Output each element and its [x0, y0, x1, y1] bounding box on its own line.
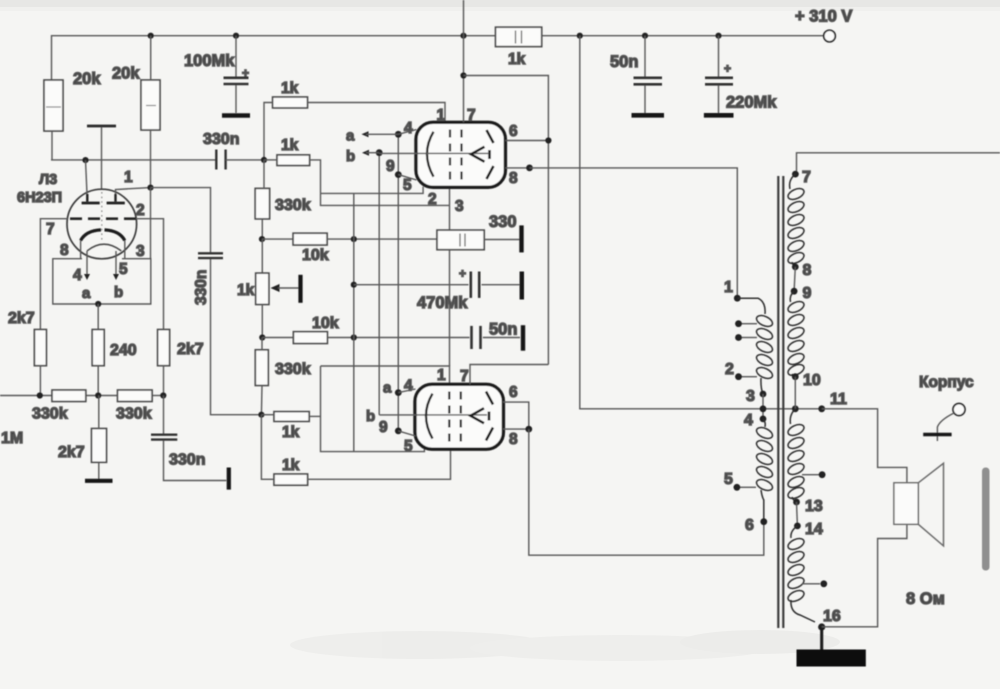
- center line pin9: [379, 152, 488, 154]
- svg-text:13: 13: [805, 498, 823, 515]
- wire bottom bias row y395: [0, 395, 52, 397]
- node bus-pin7: [460, 33, 466, 39]
- capacitor 50n feedback: [472, 321, 524, 351]
- tap 5: [724, 471, 756, 491]
- cathode arc A: [81, 230, 101, 241]
- resistor 330k bias right: [116, 390, 152, 423]
- pin6 stub: [503, 402, 529, 429]
- svg-text:330n: 330n: [169, 452, 205, 469]
- wire 20k right bottom: [150, 36, 152, 80]
- svg-text:a: a: [346, 128, 355, 145]
- anode B bar: [107, 188, 151, 203]
- tap stub a: [735, 320, 757, 327]
- wire tap7 feedback line: [797, 153, 1000, 171]
- capacitor 330n phase-b (vertical line x210): [151, 188, 262, 415]
- node pin7-b+: [460, 72, 466, 78]
- tap 6: [760, 518, 767, 525]
- svg-text:10k: 10k: [302, 247, 329, 264]
- node 1k chain: [261, 157, 267, 163]
- wiper arrow: [271, 284, 280, 292]
- tap 11: [818, 405, 825, 412]
- capacitor 100Mk: [184, 36, 250, 116]
- winding right section A: [786, 174, 805, 267]
- beam plates: [471, 147, 485, 162]
- svg-text:1: 1: [437, 367, 446, 384]
- capacitor 330n coupling top: [203, 131, 264, 170]
- svg-text:2: 2: [428, 191, 437, 208]
- svg-text:20k: 20k: [73, 70, 101, 88]
- anode dashes: [486, 392, 493, 441]
- ground slab: [797, 650, 866, 667]
- node 395-2k7c: [160, 392, 166, 398]
- wire grid right pin2: [136, 219, 164, 330]
- tap 8: [792, 264, 799, 271]
- node right on output line: [792, 405, 799, 412]
- wire return: [822, 524, 907, 627]
- resistor 2k7 grid right: [158, 330, 204, 396]
- svg-text:a: a: [383, 380, 392, 397]
- svg-text:Л3: Л3: [39, 172, 57, 188]
- svg-text:3: 3: [455, 198, 464, 215]
- resistor 330k divider bottom: [255, 338, 310, 415]
- wire tube2 grid feed x320: [321, 366, 425, 452]
- svg-text:1: 1: [437, 107, 446, 124]
- wire cathode A lead: [80, 241, 82, 259]
- resistor 20k right: [112, 36, 160, 188]
- wire pin8 to tap6: [529, 429, 764, 555]
- wire tube1 pin3 step: [321, 193, 450, 205]
- svg-text:7: 7: [460, 368, 469, 385]
- wire feed from tap11: [822, 409, 907, 483]
- svg-text:4: 4: [744, 412, 753, 429]
- winding right section B: [786, 291, 805, 377]
- svg-text:100Mk: 100Mk: [184, 52, 235, 70]
- wire to tube2a pin1: [308, 103, 446, 123]
- wire to step: [310, 160, 321, 194]
- label a tube1 + arrow: [346, 120, 417, 145]
- pin8 stub: [505, 167, 529, 169]
- tap 4: [762, 394, 764, 419]
- ground bar vertical: [227, 468, 231, 490]
- ground bar vertical: [521, 325, 525, 351]
- wire pin6 b+: [464, 76, 549, 365]
- wire cathode bus x354: [353, 193, 355, 451]
- node phase-b junction: [258, 412, 264, 418]
- svg-text:2k7: 2k7: [58, 444, 85, 461]
- svg-text:7: 7: [802, 169, 811, 186]
- resistor 20k left: [44, 70, 101, 160]
- transformer T1: [724, 153, 1000, 667]
- tube V1 output (upper): [379, 0, 551, 365]
- heater pin 4 arrow: [73, 251, 91, 302]
- potentiometer 1k: [237, 239, 301, 337]
- winding right section C: [786, 409, 805, 501]
- tap 2: [725, 361, 757, 380]
- svg-text:3: 3: [136, 243, 145, 260]
- ground bar vertical: [298, 275, 302, 303]
- pin box below tube: [53, 188, 151, 330]
- svg-text:330k: 330k: [275, 361, 311, 378]
- svg-text:2k7: 2k7: [8, 310, 35, 327]
- node cathode junction: [95, 301, 101, 307]
- node 160-anode: [82, 157, 88, 163]
- wire b-line: [376, 149, 383, 415]
- capacitor 330n lower: [151, 396, 229, 490]
- svg-text:470Mk: 470Mk: [417, 294, 468, 312]
- grid dashes 1: [449, 130, 451, 180]
- wire grid left pin7: [40, 219, 67, 330]
- svg-text:4: 4: [73, 267, 82, 284]
- svg-text:1k: 1k: [282, 457, 300, 474]
- wire tube1 pin2 step: [321, 187, 424, 194]
- wire top supply bus: [52, 36, 824, 80]
- svg-text:1: 1: [124, 169, 133, 186]
- grid dashes 2: [460, 130, 462, 180]
- svg-text:8: 8: [509, 431, 518, 448]
- svg-text:7: 7: [46, 221, 55, 238]
- wire cap to node: [226, 159, 264, 161]
- wire B+ to output line: [580, 36, 822, 409]
- wire cathode B lead: [124, 241, 126, 259]
- svg-text:5: 5: [724, 471, 733, 488]
- svg-text:+ 310 V: + 310 V: [795, 8, 852, 26]
- svg-text:14: 14: [805, 521, 823, 538]
- svg-text:1k: 1k: [508, 51, 526, 68]
- svg-text:1: 1: [724, 279, 733, 296]
- node cathode-470: [351, 282, 357, 288]
- wire driver plate row y160: [51, 159, 216, 161]
- ground bar vertical: [519, 225, 523, 252]
- svg-text:330k: 330k: [275, 197, 311, 214]
- svg-text:1M: 1M: [1, 430, 23, 447]
- heater arc: [87, 244, 121, 251]
- svg-text:5: 5: [119, 261, 128, 278]
- capacitor 50n supply: [610, 36, 664, 116]
- svg-text:8: 8: [509, 170, 518, 187]
- svg-text:50n: 50n: [489, 321, 517, 339]
- resistor 10k upper: [293, 233, 327, 245]
- tap 15 stub: [802, 580, 827, 587]
- node bus-220Mk: [715, 33, 721, 39]
- svg-text:330n: 330n: [203, 131, 239, 148]
- node bus-100Mk: [233, 33, 239, 39]
- tap 7: [792, 171, 799, 178]
- svg-text:6: 6: [745, 517, 754, 534]
- resistor 330k divider top: [255, 160, 310, 239]
- wire pin1 riser to box: [150, 188, 152, 259]
- svg-text:6: 6: [509, 384, 518, 401]
- svg-text:2: 2: [725, 361, 734, 378]
- svg-text:1k: 1k: [237, 282, 255, 299]
- svg-text:240: 240: [110, 342, 137, 359]
- anode dashes: [487, 130, 494, 179]
- svg-text:2k7: 2k7: [177, 341, 204, 358]
- winding left section F: [755, 419, 774, 522]
- pin5 diag: [398, 431, 415, 436]
- svg-text:10: 10: [803, 372, 821, 389]
- link 13-14: [796, 502, 799, 526]
- svg-text:8 Ом: 8 Ом: [906, 590, 945, 608]
- label 5 tube1: [398, 175, 416, 194]
- node 395-240: [95, 392, 101, 398]
- pin8 stub: [503, 428, 529, 430]
- heater pin 5 arrow: [113, 251, 128, 301]
- svg-text:20k: 20k: [112, 65, 140, 83]
- resistor 1k (top bus): [496, 27, 542, 68]
- resistor 1k grid stopper A1: [264, 80, 445, 159]
- capacitor 470Mk: [354, 267, 522, 313]
- node bus-580: [577, 33, 583, 39]
- svg-text:4: 4: [404, 378, 413, 395]
- svg-text:9: 9: [803, 285, 812, 302]
- cathode arc: [427, 132, 434, 177]
- resistor 2k7 grid left: [8, 310, 46, 396]
- tube U1 6N23P envelope: [17, 160, 164, 329]
- speaker 8 Ohm: [894, 463, 944, 546]
- svg-text:5: 5: [404, 438, 413, 455]
- heater bias bar: [87, 126, 116, 190]
- svg-text:16: 16: [823, 608, 841, 625]
- winding left section E: [737, 298, 774, 394]
- svg-text:b: b: [114, 284, 123, 301]
- node bus-50n: [642, 33, 648, 39]
- svg-text:3: 3: [746, 388, 755, 405]
- resistor 330k bias left: [32, 390, 86, 423]
- svg-text:220Mk: 220Mk: [726, 94, 777, 112]
- svg-text:9: 9: [386, 158, 395, 175]
- svg-text:1k: 1k: [281, 80, 299, 97]
- resistor 1k grid stopper A2: [261, 137, 321, 193]
- svg-text:11: 11: [830, 391, 847, 408]
- tap 10: [792, 373, 799, 380]
- grid dashed line: [70, 217, 136, 220]
- tap 14: [794, 523, 801, 530]
- chassis terminal Korpus: [919, 374, 974, 441]
- node pin1: [147, 185, 153, 191]
- svg-text:10k: 10k: [312, 315, 339, 332]
- cathode arc: [426, 394, 433, 439]
- wire tube2 pin1 feed y366: [321, 366, 450, 384]
- speaker circuit: [822, 409, 945, 627]
- wire anode B to pin1 node: [116, 188, 151, 194]
- anode A bar: [82, 160, 100, 203]
- svg-text:330k: 330k: [32, 406, 68, 423]
- resistor 10k lower: [293, 332, 327, 344]
- svg-text:+: +: [459, 267, 466, 281]
- node bus-20k2: [148, 33, 154, 39]
- tap 13: [792, 497, 797, 502]
- capacitor 220Mk: [704, 36, 777, 116]
- center heater dotted line: [101, 192, 103, 240]
- label b tube1 + arrow: [346, 148, 395, 175]
- resistor 330 cathode: [437, 213, 522, 252]
- svg-text:330k: 330k: [116, 406, 152, 423]
- svg-text:b: b: [346, 148, 355, 165]
- core lines: [777, 176, 779, 628]
- ground bar: [85, 479, 113, 483]
- resistor 240: [92, 330, 137, 396]
- wire a-line: [395, 131, 402, 434]
- pin9 center line: [379, 414, 487, 416]
- resistor 2k7 cathode lower: [58, 396, 113, 481]
- svg-text:1k: 1k: [281, 137, 299, 154]
- link 8-9: [794, 267, 795, 291]
- winding right section D: [786, 526, 815, 622]
- svg-text:330n: 330n: [193, 270, 210, 305]
- tap 12 stub: [802, 471, 825, 478]
- wire pin8 to transformer tap1: [530, 168, 738, 298]
- ground bar vertical: [520, 272, 524, 300]
- pin7 feed: [470, 365, 548, 385]
- tap 16: [818, 623, 825, 630]
- svg-text:6: 6: [509, 123, 518, 140]
- svg-text:1k: 1k: [282, 424, 300, 441]
- svg-text:8: 8: [60, 242, 69, 259]
- pin6 stub: [505, 140, 548, 142]
- wire tube1 pin3 to tube2 (hidden under 330 box): [449, 187, 451, 206]
- tap 3: [760, 391, 767, 398]
- tap 9: [791, 288, 798, 295]
- beam plates: [471, 408, 485, 423]
- svg-text:330: 330: [489, 213, 517, 231]
- gray edge bar: [982, 468, 990, 571]
- wire 10k row2: [259, 315, 469, 344]
- grid dashes 2: [460, 392, 462, 442]
- node 395-2k7a: [37, 392, 43, 398]
- tube V2 output (lower): [366, 365, 764, 556]
- svg-text:2: 2: [136, 202, 145, 219]
- svg-text:50n: 50n: [610, 53, 638, 71]
- resistor 1k grid stopper B1: [261, 412, 320, 441]
- svg-text:b: b: [366, 408, 375, 425]
- wire 10k row1: [259, 233, 437, 264]
- wire 16 to ground slab: [820, 627, 823, 650]
- svg-text:4: 4: [404, 120, 413, 137]
- pin7 lead: [463, 0, 465, 122]
- svg-text:7: 7: [467, 107, 476, 124]
- wire 20k left bottom: [51, 131, 53, 160]
- resistor 1k grid stopper B2: [261, 415, 450, 486]
- terminal +310V: [824, 30, 836, 42]
- cathode arc B: [105, 230, 125, 241]
- grid dashes 1: [448, 392, 450, 442]
- tap stub b: [735, 334, 757, 341]
- svg-text:Корпус: Корпус: [919, 374, 974, 391]
- svg-text:+: +: [724, 62, 731, 76]
- primary left: tap 1: [734, 295, 741, 302]
- svg-text:5: 5: [403, 177, 412, 194]
- svg-text:a: a: [82, 285, 91, 302]
- wire to 240: [97, 304, 99, 330]
- svg-text:6Н23П: 6Н23П: [17, 190, 62, 206]
- svg-text:8: 8: [803, 262, 812, 279]
- svg-text:9: 9: [379, 419, 388, 436]
